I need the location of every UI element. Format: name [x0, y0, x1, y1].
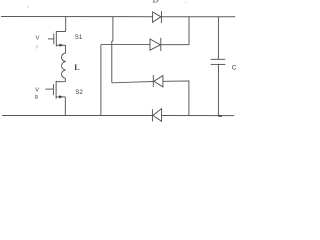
diode D3: [153, 75, 163, 87]
wire V1 lower (down to D3 cathode wire): [111, 45, 113, 83]
wire L bottom to S2 drain: [64, 78, 66, 81]
svg-text:g: g: [35, 94, 38, 100]
wire S1 drain to top rail: [65, 17, 67, 32]
wire V2 (D2 anode node down to bottom rail): [100, 45, 102, 116]
svg-text:V: V: [35, 87, 39, 93]
transistor S1: [48, 31, 66, 47]
svg-text:C: C: [232, 64, 237, 71]
wire top rail right segment: [161, 16, 235, 18]
transistor S2: [45, 81, 65, 99]
speckle dot top left: [28, 6, 30, 8]
diode D: [153, 11, 162, 23]
wire D3 anode right and down to bottom rail: [163, 81, 189, 116]
inductor L: [62, 53, 66, 78]
wire bottom rail right segment: [162, 115, 234, 117]
wire S1 source down: [65, 45, 67, 53]
svg-text:S1: S1: [75, 34, 83, 41]
wire D2 anode horizontal: [101, 44, 150, 46]
diode D2: [150, 38, 161, 51]
S1 source arrow: [59, 44, 63, 47]
wire D2 cathode to top rail: [161, 17, 189, 45]
wire S2 source to bottom rail: [64, 97, 66, 116]
wire top rail left segment: [1, 16, 153, 18]
diode D4: [152, 109, 161, 122]
svg-text:g: g: [36, 44, 39, 49]
wire bottom rail left segment: [2, 115, 152, 117]
wire top rail down to D2 anode (V1 upper): [112, 17, 113, 45]
svg-text:D: D: [152, 0, 159, 5]
svg-text:V: V: [36, 35, 40, 41]
S2 source arrow: [59, 95, 63, 98]
wire D3 cathode horizontal: [112, 82, 154, 83]
svg-text:S2: S2: [75, 89, 83, 96]
junction blob at capacitor/bottom rail: [218, 115, 222, 117]
capacitor C: [211, 17, 226, 116]
svg-text:L: L: [74, 63, 79, 72]
speckle dot top right: [185, 2, 186, 3]
